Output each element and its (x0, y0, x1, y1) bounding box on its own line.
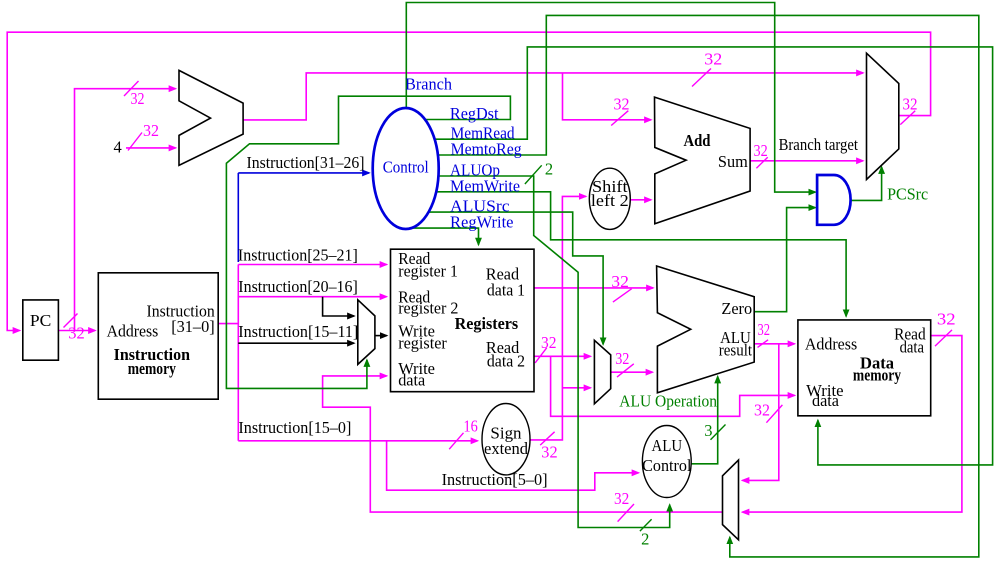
svg-text:32: 32 (614, 489, 629, 508)
svg-text:2: 2 (641, 530, 649, 549)
svg-text:32: 32 (131, 89, 145, 108)
svg-text:PCSrc: PCSrc (887, 185, 928, 204)
wire Instruction[5-0] to ALU control (387, 441, 639, 490)
svg-text:Branch: Branch (405, 75, 453, 94)
wire instruction bus vertical blue top (237, 173, 239, 262)
wire constant 4 to adder (126, 147, 176, 149)
svg-text:memory: memory (128, 359, 177, 378)
svg-text:Add: Add (684, 131, 711, 150)
svg-text:Instruction[15–11]: Instruction[15–11] (238, 322, 358, 341)
wire RegDst mux output to Write register (375, 335, 387, 337)
bus slash 32 sum (756, 157, 767, 168)
svg-text:data 2: data 2 (487, 352, 525, 371)
wire Read data 1 to ALU (534, 287, 653, 289)
wire Instruction[15-0] to Sign extend (238, 440, 477, 442)
svg-text:data: data (900, 337, 925, 356)
svg-text:register 1: register 1 (398, 261, 458, 280)
svg-text:2: 2 (545, 160, 553, 179)
svg-text:32: 32 (611, 272, 629, 291)
wire AND gate output PCSrc to mux (851, 167, 882, 200)
svg-text:32: 32 (758, 320, 771, 339)
svg-text:32: 32 (937, 310, 956, 329)
svg-text:PC: PC (30, 311, 51, 330)
svg-text:32: 32 (541, 443, 557, 462)
svg-text:data: data (812, 391, 840, 410)
wire RegWrite control to Registers (411, 228, 478, 245)
svg-text:left 2: left 2 (591, 191, 629, 210)
oval Control unit (373, 108, 439, 229)
svg-text:Control: Control (383, 158, 429, 177)
wire branch adder Sum to PCsrc mux (750, 160, 863, 162)
svg-text:32: 32 (614, 95, 630, 114)
wire Read data 2 to ALUsrc mux (534, 355, 591, 357)
wire ALU result to Data memory Address (754, 343, 794, 345)
wire ALUOp control to ALU control (438, 176, 669, 528)
svg-text:result: result (719, 340, 753, 359)
svg-text:RegDst: RegDst (450, 104, 499, 123)
wire Read data 2 branch to Data memory Write data (551, 356, 795, 416)
bus slash 32 add input (611, 111, 628, 126)
wire Shift left 2 to branch adder (630, 199, 651, 201)
adder PC+4 (179, 70, 243, 165)
wire PC-source mux output feedback to PC (7, 32, 930, 330)
wire ALUSrc control to ALUsrc mux (429, 212, 603, 344)
wire PC+4 down to branch adder (563, 73, 652, 120)
svg-text:Sum: Sum (718, 152, 748, 171)
register PC (23, 300, 59, 360)
svg-text:memory: memory (853, 366, 902, 385)
svg-text:MemtoReg: MemtoReg (451, 140, 522, 159)
bus slash 16 (449, 433, 463, 449)
mux RegDst (358, 300, 375, 365)
oval ALU control (642, 426, 692, 498)
mux MemtoReg (723, 460, 739, 540)
wire PC+4 to PCsrc mux (243, 73, 863, 120)
wire Branch control to AND gate (406, 3, 815, 193)
svg-text:32: 32 (68, 323, 85, 342)
svg-text:Instruction[31–26]: Instruction[31–26] (247, 153, 365, 172)
svg-text:data: data (398, 371, 426, 390)
wire MemtoReg control to MemtoReg mux (438, 15, 979, 557)
bus slash 2 ALUOp bottom (640, 519, 652, 531)
adder Add branch target (655, 97, 751, 224)
wire Instruction[31-26] to Control (238, 172, 369, 174)
block Registers (391, 249, 535, 392)
svg-text:4: 4 (114, 138, 122, 157)
bus slash 32 writeback (618, 504, 634, 522)
bus slash 32 on 4-wire (128, 133, 142, 151)
bus width slash 32 on mux output (900, 111, 915, 125)
bus slash 32 result vertical (766, 405, 782, 423)
bus slash 3 (711, 425, 726, 440)
svg-text:data 1: data 1 (487, 281, 525, 300)
wire Instruction[20-16] to Read register 2 (238, 296, 386, 298)
bus slash 32 PC+4 (692, 69, 711, 87)
wire Read data from memory to MemtoReg mux (743, 336, 962, 512)
svg-text:Control: Control (642, 456, 692, 475)
bus slash 32 read data 2 (535, 348, 547, 363)
bus slash 32 read data 1 (613, 289, 632, 302)
svg-text:RegWrite: RegWrite (450, 213, 514, 232)
oval Sign extend (482, 404, 530, 475)
wire Instruction[25-21] to Read register 1 (238, 264, 386, 266)
wire Instruction[20-16] branch to RegDst mux (323, 297, 354, 316)
svg-text:32: 32 (704, 50, 722, 69)
svg-text:Instruction[25–21]: Instruction[25–21] (238, 245, 358, 264)
svg-text:32: 32 (541, 333, 557, 352)
wire RegDst control to register mux (226, 96, 510, 388)
bus slash 32 PC-IM (64, 314, 78, 328)
svg-text:Instruction[5–0]: Instruction[5–0] (442, 470, 548, 489)
wire ALU result branch down to MemtoReg mux (743, 344, 779, 481)
svg-text:32: 32 (754, 401, 770, 420)
svg-text:ALU Operation: ALU Operation (619, 392, 717, 411)
svg-text:32: 32 (615, 349, 629, 368)
block Instruction memory (98, 273, 218, 399)
svg-text:3: 3 (704, 421, 712, 440)
wire Sign extend output vertical (530, 196, 586, 440)
svg-text:32: 32 (754, 141, 768, 160)
svg-text:Address: Address (107, 322, 159, 341)
gate AND PCSrc (817, 175, 851, 225)
bus slash 32 adder input (124, 81, 139, 96)
mux PCSrc (867, 53, 899, 179)
svg-text:32: 32 (903, 95, 918, 114)
wire ALU control output to ALU (691, 377, 718, 464)
wire PC value up to PC+4 adder (75, 89, 176, 331)
wire Zero flag to AND gate (754, 208, 815, 312)
wire sign extend branch to ALUsrc mux (562, 387, 590, 389)
bus slash 32 mux-alu (617, 364, 634, 377)
svg-text:register 2: register 2 (398, 299, 458, 318)
oval Shift left 2 (589, 168, 630, 229)
svg-text:ALU: ALU (652, 436, 683, 455)
wire instruction memory output (218, 323, 238, 325)
svg-text:Instruction[20–16]: Instruction[20–16] (238, 277, 357, 296)
svg-text:register: register (398, 334, 447, 353)
wire ALUsrc mux output to ALU (611, 371, 653, 373)
wire instruction bus vertical (237, 265, 239, 441)
svg-text:32: 32 (143, 121, 159, 140)
svg-text:MemWrite: MemWrite (450, 176, 520, 195)
svg-text:extend: extend (484, 439, 529, 458)
wire MemtoReg mux output to Registers Write data (323, 376, 723, 512)
svg-text:Instruction[15–0]: Instruction[15–0] (238, 418, 351, 437)
bus slash 2 ALUOp top (525, 165, 542, 184)
wire MemWrite control to Data memory (436, 192, 846, 316)
svg-text:Zero: Zero (721, 299, 752, 318)
bus slash 32 read data (935, 330, 952, 346)
svg-text:Address: Address (805, 335, 857, 354)
bus slash 32 alu result (758, 340, 769, 348)
svg-text:[31–0]: [31–0] (171, 317, 215, 336)
mux ALUSrc (594, 340, 610, 404)
svg-text:Registers: Registers (455, 314, 519, 333)
wire MemRead control to Data memory (434, 47, 993, 465)
svg-text:Branch target: Branch target (779, 135, 859, 154)
bus slash 32 sign extend (540, 432, 554, 445)
alu main ALU (657, 266, 755, 393)
wire Instruction[15-11] to RegDst mux (238, 342, 354, 344)
block Data memory (798, 320, 931, 416)
svg-text:16: 16 (464, 417, 478, 436)
wire PC to Instruction memory Address (58, 330, 95, 332)
